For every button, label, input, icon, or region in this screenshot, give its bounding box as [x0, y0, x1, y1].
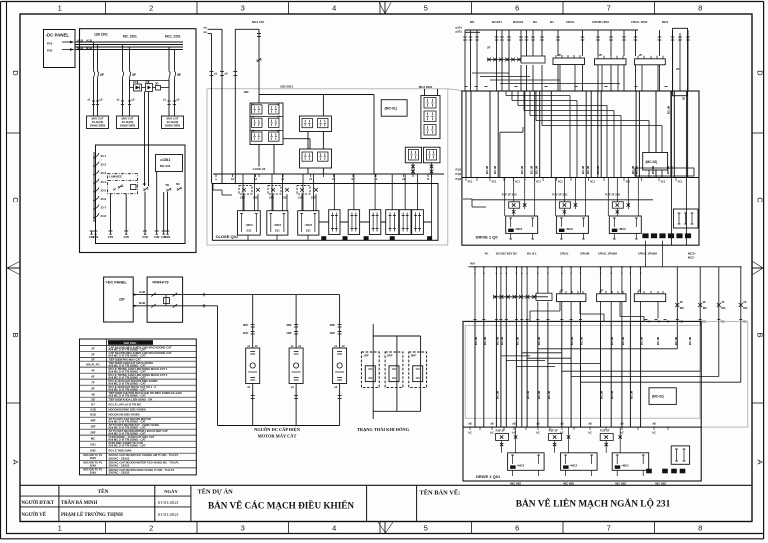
- svg-text:NGÀY: NGÀY: [164, 489, 178, 494]
- relay element left row: [252, 118, 263, 127]
- svg-text:x1: x1: [88, 98, 92, 102]
- K2 to K3 wires: [307, 132, 309, 150]
- trip coil wires 1: [510, 233, 512, 239]
- motor strip wire 2 lower: [295, 384, 297, 426]
- motor strip wire 2 upper: [295, 295, 297, 348]
- svg-text:8: 8: [698, 4, 702, 13]
- elbow connector 2: [480, 76, 530, 78]
- svg-text:x1: x1: [291, 344, 294, 348]
- region5 terminal row: [646, 469, 652, 474]
- svg-text:KHI MC O VI TRI DONG - CAT: KHI MC O VI TRI DONG - CAT: [109, 354, 147, 358]
- trip feeder wires 2: [554, 178, 556, 217]
- svg-text:B5.1M: B5.1M: [600, 390, 604, 399]
- svg-text:GHI CHU: GHI CHU: [124, 341, 137, 345]
- svg-text:=MC2: =MC2: [274, 223, 282, 227]
- svg-text:a2: a2: [225, 72, 229, 76]
- terminal 4: [124, 230, 128, 232]
- svg-text:1: 1: [58, 4, 62, 13]
- svg-text:N1B: N1B: [139, 301, 146, 305]
- svg-text:23-11(23): 23-11(23): [167, 120, 179, 124]
- svg-text:p201: p201: [456, 30, 463, 34]
- svg-text:2F: 2F: [113, 188, 117, 192]
- svg-text:bC: bC: [536, 431, 540, 435]
- svg-text:231: 231: [246, 229, 251, 233]
- left ruler ticks: [6, 132, 20, 134]
- centering mark left: [6, 267, 20, 269]
- right relay stack frame: [421, 96, 440, 139]
- trip coil box 3: [609, 216, 641, 233]
- elbow connector 3: [490, 79, 560, 81]
- DC panel source box: [44, 30, 76, 68]
- branch line to coils: [259, 94, 374, 96]
- legend table column divider: [106, 339, 108, 475]
- svg-text:22P: 22P: [119, 298, 126, 302]
- svg-text:CLOSE Q01: CLOSE Q01: [216, 234, 239, 239]
- svg-text:=MC2: =MC2: [517, 464, 525, 468]
- trip contact group 3: [612, 202, 623, 208]
- svg-text:=CB1: =CB1: [160, 157, 171, 162]
- svg-text:7: 7: [607, 4, 611, 13]
- svg-text:B5.1M: B5.1M: [483, 336, 487, 345]
- svg-text:4C1: 4C1: [515, 180, 520, 184]
- dc bus line 4: [75, 49, 184, 51]
- wire box1b to bus: [273, 145, 275, 175]
- svg-text:P.2F 2F 21D: P.2F 2F 21D: [502, 193, 517, 197]
- svg-text:45A: 45A: [470, 261, 475, 265]
- svg-text:23-4: 23-4: [101, 180, 107, 184]
- inner box vertical wire 1: [110, 194, 112, 231]
- svg-text:N1B: N1B: [90, 412, 96, 416]
- svg-text:c2: c2: [309, 177, 312, 181]
- svg-text:1RF: 1RF: [286, 331, 292, 335]
- svg-text:1D: 1D: [133, 80, 137, 84]
- svg-text:2F: 2F: [743, 300, 747, 304]
- PR internal contact 2: [151, 304, 155, 308]
- svg-text:3RF: 3RF: [411, 354, 417, 358]
- svg-text:=MC2: =MC2: [565, 227, 573, 231]
- svg-text:KHI MC O VI TRI DONG - CAT: KHI MC O VI TRI DONG - CAT: [109, 381, 147, 385]
- svg-text:A: A: [756, 459, 765, 464]
- staircase connector 6: [571, 376, 719, 378]
- svg-text:DRIVE 1 Q0: DRIVE 1 Q0: [476, 235, 499, 240]
- staircase connector 7: [581, 381, 741, 383]
- wire to lower section B: [148, 92, 150, 187]
- svg-text:2: 2: [149, 4, 153, 13]
- svg-text:DONG DIEN: DONG DIEN: [165, 124, 180, 128]
- svg-text:B5.1M: B5.1M: [610, 336, 614, 345]
- close aux wire 6: [417, 174, 419, 210]
- svg-text:1Ph2M 1Ph2: 1Ph2M 1Ph2: [592, 20, 609, 24]
- svg-text:2D: 2D: [145, 80, 149, 84]
- svg-text:=DC PANEL: =DC PANEL: [106, 281, 128, 285]
- svg-text:2F: 2F: [638, 288, 642, 292]
- svg-text:MOTOR MÁY CẮT: MOTOR MÁY CẮT: [258, 433, 297, 439]
- relay block K1 frame: [250, 103, 283, 145]
- svg-text:P.2F 2F: P.2F 2F: [496, 429, 506, 433]
- ladder contact 5: [94, 187, 99, 192]
- state cell 3 dashed box: [409, 352, 427, 388]
- state cell 1 dashed box: [361, 352, 379, 388]
- selector contact inside dashed box: [118, 185, 122, 189]
- svg-text:C: C: [11, 197, 20, 203]
- svg-text:aB: aB: [536, 422, 539, 426]
- right long wire 1: [676, 267, 678, 349]
- svg-text:2F: 2F: [487, 46, 491, 50]
- svg-text:B5.1M: B5.1M: [656, 336, 660, 345]
- svg-text:TRẦN BÁ MINH: TRẦN BÁ MINH: [61, 500, 98, 506]
- ladder contact 6: [94, 196, 99, 201]
- svg-text:d2: d2: [351, 177, 355, 181]
- svg-text:3F: 3F: [132, 73, 136, 77]
- svg-text:x2: x2: [298, 344, 301, 348]
- svg-text:12B 2201: 12B 2201: [94, 33, 108, 37]
- svg-text:MC: MC: [91, 436, 95, 440]
- relay element K3b: [318, 152, 329, 161]
- svg-text:5D: 5D: [91, 397, 95, 401]
- svg-text:B5.1M: B5.1M: [581, 165, 585, 174]
- svg-text:B5.1M: B5.1M: [535, 165, 539, 174]
- right long wire 4: [740, 267, 742, 382]
- svg-text:23-7: 23-7: [101, 206, 107, 210]
- PR internal contact 3: [173, 293, 177, 297]
- wire pair continue 2: [122, 80, 124, 117]
- trip feeder wires 3: [607, 178, 609, 217]
- trip coil box 1: [506, 216, 538, 233]
- wire drop right branch: [373, 95, 375, 175]
- diode block D2: [146, 84, 153, 92]
- svg-text:P.2F 2F 21D: P.2F 2F 21D: [552, 193, 567, 197]
- svg-text:6F: 6F: [91, 374, 95, 378]
- fuse 5F: [168, 70, 170, 72]
- title block row lines: [20, 495, 191, 497]
- svg-text:KHI MC O VI TRI DONG - CAT: KHI MC O VI TRI DONG - CAT: [109, 437, 147, 441]
- svg-text:wL: wL: [202, 30, 207, 34]
- motor strip wire 3 lower: [339, 384, 341, 426]
- close aux wire 4: [391, 174, 393, 210]
- motor protection unit 2: [289, 348, 303, 384]
- svg-text:MC: MC: [721, 306, 725, 310]
- svg-text:C0N: C0N: [142, 235, 147, 239]
- state group top link: [373, 335, 420, 337]
- svg-text:1RF: 1RF: [243, 331, 249, 335]
- svg-text:4D: 4D: [91, 392, 95, 396]
- motor protection unit 1: [246, 348, 260, 384]
- feeder contact ticks: [210, 71, 214, 73]
- svg-text:aB: aB: [490, 422, 493, 426]
- svg-text:DONG DIEN: DONG DIEN: [120, 124, 135, 128]
- close aux box 6: [412, 210, 424, 235]
- r5 trip wires 3: [616, 470, 618, 476]
- title block outline: [20, 484, 752, 486]
- svg-text:23-11(23): 23-11(23): [92, 120, 104, 124]
- svg-text:2F: 2F: [100, 73, 104, 77]
- svg-text:=MC2: =MC2: [305, 223, 313, 227]
- svg-text:RO LE LAP LAI VI TRI MC: RO LE LAP LAI VI TRI MC: [109, 402, 142, 406]
- svg-text:5F: 5F: [91, 357, 95, 361]
- svg-text:4C1: 4C1: [492, 180, 497, 184]
- trip contact group 1: [509, 202, 520, 208]
- svg-text:A1B: A1B: [139, 290, 146, 294]
- svg-text:12B 2201: 12B 2201: [280, 85, 293, 89]
- svg-text:2F: 2F: [680, 300, 684, 304]
- r5 trip cluster 1: [496, 434, 509, 441]
- svg-text:40.: 40.: [485, 252, 489, 256]
- control relay box 2: [117, 116, 139, 129]
- dc bus line 1: [75, 41, 184, 43]
- svg-text:(MC-02): (MC-02): [646, 160, 658, 164]
- svg-text:TIEP DIEM PHU MAY CAT: TIEP DIEM PHU MAY CAT: [109, 357, 142, 361]
- wire long right A: [671, 91, 673, 245]
- svg-text:23-3: 23-3: [101, 171, 107, 175]
- close aux wire 1: [333, 174, 335, 210]
- interlock link bus: [130, 80, 170, 82]
- state group feed wire: [372, 324, 374, 419]
- terminal 7: [162, 230, 166, 232]
- svg-text:C0N: C0N: [154, 235, 159, 239]
- region5 internal columns: [474, 321, 476, 427]
- svg-text:MC. 2201: MC. 2201: [123, 35, 137, 39]
- svg-text:x2: x2: [255, 344, 258, 348]
- svg-text:B5.1M: B5.1M: [485, 165, 489, 174]
- region5 grey box outer: [463, 321, 748, 427]
- staircase connector 5: [562, 370, 700, 372]
- svg-text:LAMVIEC: LAMVIEC: [109, 174, 123, 178]
- svg-text:-DC PANEL: -DC PANEL: [46, 33, 70, 38]
- close section box: [212, 184, 438, 241]
- close aux wire 5: [404, 174, 406, 210]
- svg-text:x3: x3: [291, 385, 294, 389]
- svg-text:B5.1M: B5.1M: [515, 336, 519, 345]
- svg-text:B5.1M: B5.1M: [610, 390, 614, 399]
- motor strip wire 1 upper: [252, 295, 254, 348]
- terminal 1: [90, 230, 94, 232]
- svg-text:KHI MC O VI TRI DONG - CAT: KHI MC O VI TRI DONG - CAT: [109, 444, 147, 448]
- thin box above bus right: [635, 168, 694, 176]
- region3 bus ticks: [465, 177, 468, 179]
- svg-text:aB: aB: [620, 422, 623, 426]
- =DC PANEL box: [104, 277, 134, 322]
- svg-text:4BC 4BD: 4BC 4BD: [655, 482, 666, 486]
- state group wire 2: [396, 336, 398, 411]
- svg-text:(MC-01): (MC-01): [385, 107, 397, 111]
- inner box vertical wire 5: [163, 192, 165, 231]
- svg-text:B0. B1.: B0. B1.: [527, 252, 537, 256]
- fuse 3F: [122, 70, 124, 72]
- svg-text:3: 3: [241, 4, 245, 13]
- r5 trip coil box 2: [561, 453, 598, 471]
- svg-text:1Ph2L: 1Ph2L: [566, 20, 575, 24]
- control relay box 3: [162, 116, 184, 129]
- svg-text:x3: x3: [247, 385, 250, 389]
- PR internal contact 4: [173, 304, 177, 308]
- svg-text:=MC2: =MC2: [515, 227, 523, 231]
- svg-text:4C1: 4C1: [558, 180, 563, 184]
- svg-text:bC: bC: [588, 431, 592, 435]
- svg-text:4C1: 4C1: [468, 180, 473, 184]
- svg-text:4: 4: [332, 524, 336, 533]
- svg-text:01/01/2021: 01/01/2021: [158, 512, 180, 517]
- svg-text:TÊN BẢN VẼ:: TÊN BẢN VẼ:: [420, 489, 461, 497]
- svg-text:2F: 2F: [599, 53, 603, 57]
- svg-text:c1: c1: [282, 177, 285, 181]
- right contacts below: [411, 165, 415, 169]
- svg-text:B5.1M: B5.1M: [493, 165, 497, 174]
- svg-text:x2: x2: [99, 98, 103, 102]
- region5 coil Y1: [557, 294, 586, 302]
- svg-text:3D: 3D: [155, 82, 159, 86]
- motor protection unit 3: [333, 348, 347, 384]
- svg-text:4C1: 4C1: [590, 180, 595, 184]
- contactor coil X1: [553, 58, 585, 65]
- svg-text:bC: bC: [652, 431, 656, 435]
- fuse 2F: [93, 70, 95, 72]
- feeder wire w4 elbow: [235, 28, 259, 30]
- strip fuse ticks 3: [338, 324, 342, 326]
- ladder contact 2: [94, 162, 99, 167]
- region3 column wires: [464, 30, 466, 91]
- contact 5D: [167, 188, 171, 192]
- svg-text:B5.1M: B5.1M: [495, 390, 499, 399]
- contact 4D: [144, 187, 148, 191]
- inner box vertical wire 4: [156, 172, 158, 232]
- svg-text:6: 6: [515, 524, 519, 533]
- r5 trip wires 2: [565, 470, 567, 476]
- elbow connector 1: [472, 72, 509, 74]
- ladder contact 8: [94, 213, 99, 218]
- coil bottom stubs: [559, 65, 561, 91]
- svg-text:KHI MC O VI TRI DONG - CAT: KHI MC O VI TRI DONG - CAT: [109, 431, 147, 435]
- svg-text:K85: K85: [90, 448, 96, 452]
- state cell 3 contactor: [413, 366, 423, 382]
- svg-text:231: 231: [306, 229, 311, 233]
- ladder contact 3: [94, 170, 99, 175]
- staircase connector 4b: [548, 363, 601, 365]
- svg-text:4BC 4BD: 4BC 4BD: [510, 482, 521, 486]
- right pair box B: [424, 147, 441, 163]
- wire to lower section A: [144, 92, 146, 187]
- close aux box 3: [369, 210, 380, 235]
- junction marks: [202, 294, 206, 296]
- region5 coil elbows: [559, 302, 561, 311]
- terminal 2: [94, 230, 98, 232]
- staircase connector 3b: [527, 357, 571, 359]
- hline through close boxes: [319, 221, 432, 223]
- staircase connector 3: [506, 360, 545, 362]
- svg-text:2F: 2F: [91, 347, 95, 351]
- svg-text:4BC 4BD: 4BC 4BD: [615, 482, 626, 486]
- svg-text:K7: K7: [91, 402, 95, 406]
- state cell 1 contactor: [365, 366, 375, 382]
- r5 trip cluster 2: [549, 434, 562, 441]
- svg-text:MC: MC: [680, 306, 684, 310]
- selector aux box: [131, 185, 137, 190]
- legend table header: [108, 340, 153, 345]
- ladder contact 7: [94, 205, 99, 210]
- svg-text:LOCK 23: LOCK 23: [253, 167, 266, 171]
- svg-text:B5.1M: B5.1M: [537, 336, 541, 345]
- wire long right B: [685, 91, 687, 245]
- svg-text:4F: 4F: [91, 368, 95, 372]
- motor strip wire 1 lower: [252, 384, 254, 426]
- region5 grey box inner: [465, 326, 700, 419]
- svg-text:2F: 2F: [639, 53, 643, 57]
- svg-text:x2: x2: [176, 98, 180, 102]
- relay block K3 frame: [300, 149, 332, 168]
- svg-text:P10: P10: [47, 41, 53, 45]
- wire box1 to bus: [258, 145, 260, 167]
- svg-text:5: 5: [424, 4, 428, 13]
- svg-text:4: 4: [332, 4, 336, 13]
- sheet outer border: [1, 1, 764, 3]
- svg-text:8: 8: [698, 524, 702, 533]
- svg-text:MC: MC: [703, 306, 707, 310]
- relay block K2 frame: [300, 116, 332, 132]
- legend table row lines: [80, 345, 197, 347]
- svg-text:b1: b1: [231, 177, 235, 181]
- svg-text:23-6: 23-6: [101, 197, 107, 201]
- close contact cluster 1: [239, 186, 252, 195]
- region5 internal bus: [463, 426, 701, 428]
- svg-text:4RF: 4RF: [243, 323, 249, 327]
- svg-text:4D: 4D: [143, 182, 147, 186]
- svg-text:(MC-02): (MC-02): [652, 395, 664, 399]
- svg-text:4RF: 4RF: [330, 323, 336, 327]
- region5 tick label row: [474, 319, 477, 321]
- svg-text:MC2 2201: MC2 2201: [419, 85, 433, 89]
- svg-text:2F: 2F: [703, 300, 707, 304]
- svg-text:B5.1M: B5.1M: [667, 105, 671, 114]
- region3 jog left: [463, 198, 472, 200]
- svg-text:B: B: [11, 332, 20, 337]
- svg-text:7F: 7F: [91, 380, 95, 384]
- wire pair continue 3: [168, 80, 170, 117]
- svg-text:B5.1M: B5.1M: [580, 336, 584, 345]
- svg-text:2RF: 2RF: [387, 354, 393, 358]
- region3 top bus 2: [465, 31, 480, 33]
- terminal 8: [166, 230, 170, 232]
- svg-text:12B: 12B: [243, 90, 248, 94]
- contact 6D: [177, 187, 181, 191]
- close aux box 2: [348, 210, 359, 235]
- svg-text:B0.: B0.: [533, 20, 538, 24]
- close aux wire 3: [374, 174, 376, 210]
- region3 top bus: [465, 29, 638, 31]
- svg-text:RO LE THOI GIAN: RO LE THOI GIAN: [109, 448, 132, 452]
- svg-text:5F: 5F: [177, 73, 181, 77]
- svg-text:B5.1M: B5.1M: [674, 336, 678, 345]
- MC-02 box lower: [649, 388, 676, 405]
- region5 bus ticks: [474, 266, 477, 268]
- svg-text:DRIVE 1 Q01: DRIVE 1 Q01: [476, 474, 501, 479]
- terminal tick labels 2: [121, 100, 124, 102]
- svg-text:d1: d1: [332, 177, 336, 181]
- wire drop to K2: [322, 95, 324, 117]
- region1 enclosure box: [80, 29, 197, 253]
- close aux box 4: [386, 210, 399, 235]
- svg-text:C0N: C0N: [165, 235, 170, 239]
- svg-text:1Ph2L 1Ph2M: 1Ph2L 1Ph2M: [638, 252, 657, 256]
- right stack relay element: [424, 111, 436, 122]
- =PR box: [147, 277, 183, 322]
- close terminals: [321, 236, 326, 240]
- svg-text:B5.1M: B5.1M: [570, 336, 574, 345]
- svg-text:PHẠM LÊ TRƯỜNG THỊNH: PHẠM LÊ TRƯỜNG THỊNH: [61, 512, 123, 518]
- staircase connector 4: [516, 366, 555, 368]
- MC-01 box: [381, 100, 407, 117]
- right long wire 2: [699, 267, 701, 371]
- svg-text:6D: 6D: [176, 182, 180, 186]
- svg-text:23-8: 23-8: [101, 214, 107, 218]
